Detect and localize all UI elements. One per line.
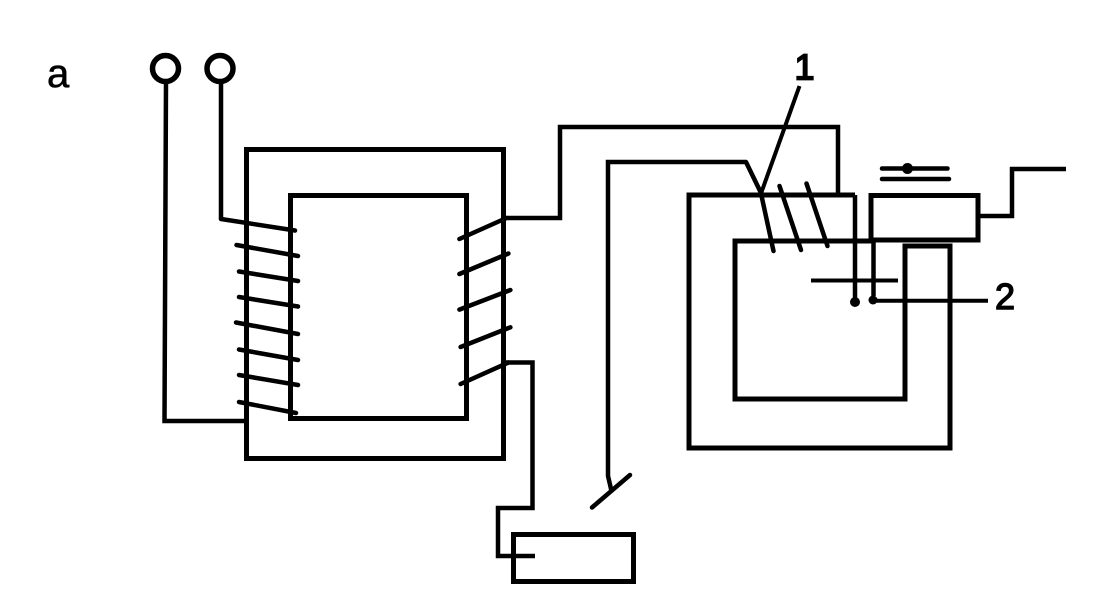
electrode rod 2	[871, 240, 876, 296]
coil slash s3	[807, 184, 828, 247]
regulator box	[871, 196, 978, 241]
probe line	[811, 279, 898, 283]
electrode dot 2	[869, 296, 878, 305]
terminal T2	[207, 56, 233, 82]
electrode dot 1	[850, 297, 860, 307]
wire A secondary top to furnace core	[504, 127, 838, 218]
load box	[514, 535, 634, 582]
wire C from regulator box	[978, 169, 1066, 216]
terminal T1	[153, 56, 179, 82]
wiper slash	[592, 475, 630, 508]
leader line 2	[874, 299, 989, 303]
electrode rod 1	[853, 195, 858, 299]
primary winding hatches	[221, 219, 298, 413]
wire from T2 down to winding	[219, 81, 224, 219]
transformer core outer (left)	[247, 150, 504, 459]
wire B diagonal into coil	[746, 162, 762, 194]
screw line A	[882, 166, 948, 171]
leader line 1	[761, 86, 800, 194]
furnace core (right, C-shaped)	[689, 195, 950, 448]
svg-text:2: 2	[995, 276, 1015, 317]
svg-text:1: 1	[795, 47, 815, 88]
secondary winding hatches	[459, 218, 510, 384]
screw line B	[882, 177, 949, 182]
coil slash s2	[780, 186, 802, 250]
screw dot	[902, 163, 913, 174]
wire D secondary bottom to load box	[498, 363, 535, 557]
wire from T1 to core bottom left	[165, 81, 249, 421]
transformer core window (left)	[291, 196, 467, 419]
svg-text:a: a	[47, 52, 70, 96]
coil slash s1	[761, 194, 774, 252]
wire B to sliding contact	[608, 162, 746, 491]
